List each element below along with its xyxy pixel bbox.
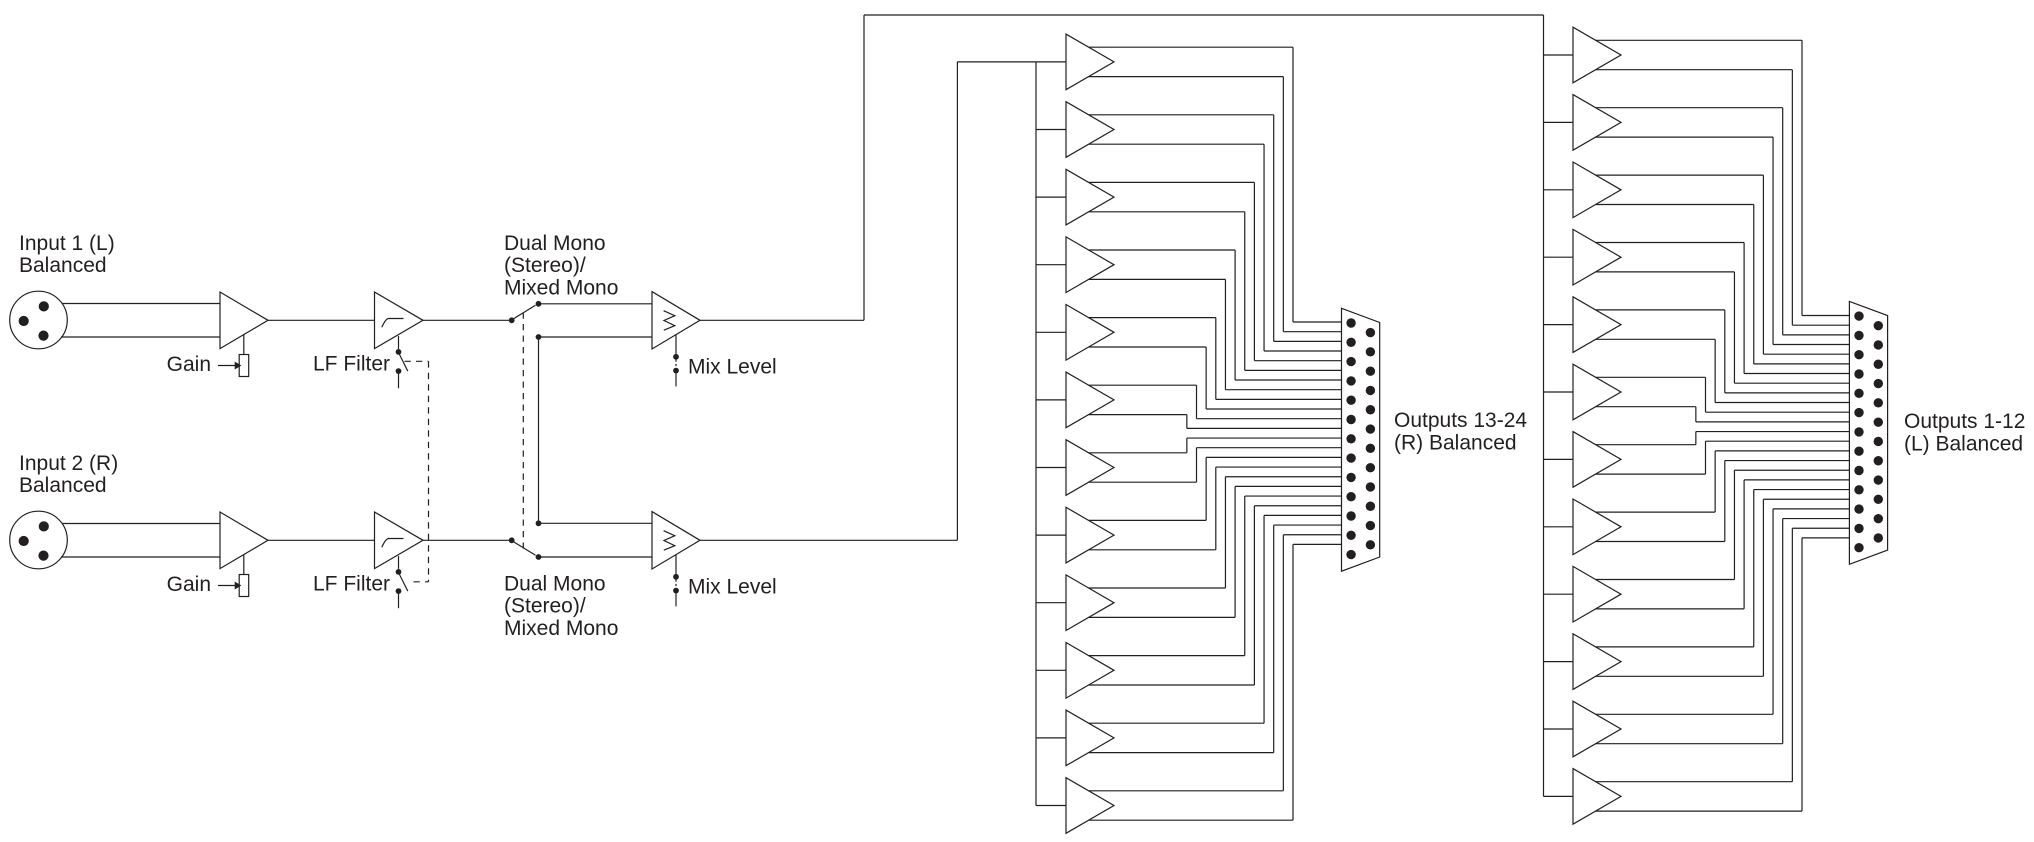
wire A10l to connector (1089, 506, 1343, 685)
wire bus tap A7 (1036, 467, 1066, 469)
op-amp A9 output driver (1066, 575, 1114, 631)
wire U2b to S2b (423, 539, 512, 541)
op-amp B4 output driver (1573, 229, 1621, 285)
dashed gang link S1b-S2b (522, 313, 524, 549)
wire B10u to connector (1596, 490, 1851, 647)
wire bus tap B12 (1544, 795, 1574, 797)
wire U1a to U1b (268, 319, 375, 321)
wire R bank distribution bus (1035, 62, 1037, 806)
svg-text:Dual Mono: Dual Mono (504, 232, 606, 255)
wire A1l to connector (1089, 77, 1343, 332)
XLR connector J2 Input 2 (10, 511, 68, 569)
wire A6u to connector (1089, 385, 1343, 419)
svg-text:(R) Balanced: (R) Balanced (1394, 432, 1517, 455)
wire bus tap A10 (1036, 669, 1066, 671)
svg-text:LF Filter: LF Filter (313, 573, 390, 596)
wire L bank distribution bus (1543, 55, 1545, 796)
switch S1b Dual Mono / Mixed Mono channel 1 (509, 301, 542, 340)
op-amp B10 output driver (1573, 634, 1621, 690)
wire B7u to connector (1596, 432, 1851, 445)
svg-text:Input 1 (L): Input 1 (L) (19, 232, 115, 255)
wire A2l to connector (1089, 144, 1343, 351)
wire A3l to connector (1089, 212, 1343, 371)
wire B12u to connector (1596, 528, 1851, 781)
op-amp U2a gain stage (220, 512, 268, 569)
op-amp U1a gain stage (220, 292, 268, 349)
wire S2b stereo throw to U2c (541, 556, 652, 558)
op-amp B3 output driver (1573, 162, 1621, 218)
op-amp B5 output driver (1573, 297, 1621, 353)
wire B1l to connector (1596, 70, 1851, 325)
svg-text:Dual Mono: Dual Mono (504, 573, 606, 596)
op-amp U2b LF Filter (375, 512, 424, 569)
wire S1b mono throw to U1c (541, 336, 652, 338)
wire B6u to connector (1596, 377, 1851, 412)
wire B3l to connector (1596, 205, 1851, 364)
svg-text:Mixed Mono: Mixed Mono (504, 277, 618, 300)
svg-text:(L) Balanced: (L) Balanced (1904, 433, 2023, 456)
op-amp A6 output driver (1066, 372, 1114, 428)
op-amp A1 output driver (1066, 34, 1114, 90)
svg-text:(Stereo)/: (Stereo)/ (504, 595, 586, 618)
wire A12l to connector (1089, 544, 1343, 820)
op-amp A3 output driver (1066, 169, 1114, 225)
op-amp U2c mix level stage (652, 512, 700, 569)
wire B12l to connector (1596, 538, 1851, 811)
op-amp A4 output driver (1066, 237, 1114, 293)
op-amp B9 output driver (1573, 566, 1621, 622)
op-amp A11 output driver (1066, 710, 1114, 766)
wire bus tap A8 (1036, 534, 1066, 536)
wire B4l to connector (1596, 272, 1851, 383)
wire B9u to connector (1596, 470, 1851, 579)
wire bus tap A12 (1036, 805, 1066, 807)
wire B2u to connector (1596, 108, 1851, 335)
wire bus tap A1 (1036, 61, 1066, 63)
svg-text:Balanced: Balanced (19, 254, 107, 277)
op-amp B1 output driver (1573, 27, 1621, 83)
wire bus tap A11 (1036, 737, 1066, 739)
wire J1 pin2 to U1a (62, 303, 220, 305)
wire A5u to connector (1089, 318, 1343, 400)
wire B4u to connector (1596, 243, 1851, 374)
svg-text:Balanced: Balanced (19, 474, 107, 497)
op-amp U1b LF Filter (375, 292, 424, 349)
wire U2a to U2b (268, 539, 375, 541)
wire bus tap B11 (1544, 728, 1574, 730)
wire A8l to connector (1089, 467, 1343, 550)
svg-text:(Stereo)/: (Stereo)/ (504, 254, 586, 277)
wire bus tap A2 (1036, 129, 1066, 131)
wire bus tap B4 (1544, 256, 1574, 258)
wire A11l to connector (1089, 525, 1343, 753)
wire A12u to connector (1089, 535, 1343, 791)
op-amp A12 output driver (1066, 778, 1114, 834)
potentiometer R1 Gain (218, 335, 249, 377)
potentiometer R4 Mix Level (673, 555, 679, 607)
wire bus tap A6 (1036, 399, 1066, 401)
op-amp A2 output driver (1066, 102, 1114, 158)
wire bus tap A4 (1036, 264, 1066, 266)
wire bus tap B7 (1544, 458, 1574, 460)
wire bus tap A9 (1036, 602, 1066, 604)
wire J2 pin3 to U2a (61, 556, 220, 558)
svg-text:Gain: Gain (167, 573, 211, 596)
op-amp B2 output driver (1573, 95, 1621, 151)
op-amp B6 output driver (1573, 364, 1621, 420)
wire bus tap B3 (1544, 189, 1574, 191)
wire B8l to connector (1596, 461, 1851, 542)
wire B8u to connector (1596, 451, 1851, 512)
dashed gang link S1a-S2a (405, 361, 429, 582)
XLR connector J1 Input 1 (10, 291, 68, 349)
wire U1c output to L bank bus (700, 15, 1544, 320)
wire J2 pin2 to U2a (62, 523, 220, 525)
svg-text:Mix Level: Mix Level (688, 576, 777, 599)
connector P1 DB25 Outputs 1-12 (1849, 301, 1887, 564)
wire A7l to connector (1089, 448, 1343, 482)
svg-text:Outputs 13-24: Outputs 13-24 (1394, 409, 1527, 432)
wire B3u to connector (1596, 175, 1851, 354)
wire A4l to connector (1089, 279, 1343, 389)
wire A11u to connector (1089, 515, 1343, 723)
wire A8u to connector (1089, 457, 1343, 520)
wire B5u to connector (1596, 310, 1851, 393)
wire A9u to connector (1089, 477, 1343, 588)
op-amp B11 output driver (1573, 701, 1621, 757)
op-amp A5 output driver (1066, 305, 1114, 361)
wire B5l to connector (1596, 339, 1851, 402)
switch S1a LF Filter bypass (396, 336, 408, 388)
wire U1b to S1b (423, 319, 512, 321)
potentiometer R3 Mix Level (673, 335, 679, 387)
potentiometer R2 Gain (218, 555, 249, 597)
svg-text:Gain: Gain (167, 353, 211, 376)
wire A10u to connector (1089, 496, 1343, 656)
wire bus tap A3 (1036, 196, 1066, 198)
op-amp B8 output driver (1573, 499, 1621, 555)
svg-text:Mixed Mono: Mixed Mono (504, 617, 618, 640)
wire U2c output to R bank bus (700, 62, 1036, 540)
svg-text:Mix Level: Mix Level (688, 356, 777, 379)
wire A9l to connector (1089, 486, 1343, 617)
wire bus tap B6 (1544, 391, 1574, 393)
wire S1b stereo throw to U1c (541, 303, 652, 305)
wire B1u to connector (1596, 40, 1851, 315)
wire B11l to connector (1596, 519, 1851, 744)
svg-text:Input 2 (R): Input 2 (R) (19, 452, 118, 475)
wire S2b mono throw to U2c (541, 522, 652, 524)
wire bus tap B10 (1544, 661, 1574, 663)
op-amp A10 output driver (1066, 643, 1114, 699)
switch S2b Dual Mono / Mixed Mono channel 2 (509, 520, 542, 560)
wire B9l to connector (1596, 480, 1851, 609)
wire A5l to connector (1089, 347, 1343, 409)
wire bus tap B2 (1544, 121, 1574, 123)
svg-text:Outputs 1-12: Outputs 1-12 (1904, 410, 2025, 433)
wire bus tap B5 (1544, 324, 1574, 326)
wire bus tap B1 (1544, 54, 1574, 56)
op-amp B12 output driver (1573, 769, 1621, 825)
wire A4u to connector (1089, 250, 1343, 380)
wire B11u to connector (1596, 509, 1851, 714)
wire A1u to connector (1089, 47, 1343, 322)
wire B2l to connector (1596, 137, 1851, 344)
wire bus tap B8 (1544, 526, 1574, 528)
wire A6l to connector (1089, 415, 1343, 429)
op-amp A7 output driver (1066, 440, 1114, 496)
op-amp A8 output driver (1066, 507, 1114, 563)
wire B7l to connector (1596, 441, 1851, 474)
svg-text:LF Filter: LF Filter (313, 353, 390, 376)
wire B10l to connector (1596, 499, 1851, 676)
op-amp B7 output driver (1573, 432, 1621, 488)
connector P2 DB25 Outputs 13-24 (1342, 308, 1380, 571)
wire J1 pin3 to U1a (61, 336, 220, 338)
wire B6l to connector (1596, 407, 1851, 422)
switch S2a LF Filter bypass (396, 556, 408, 608)
wire mono bus node A vertical (538, 340, 540, 521)
wire A2u to connector (1089, 115, 1343, 342)
wire bus tap A5 (1036, 331, 1066, 333)
wire bus tap B9 (1544, 593, 1574, 595)
op-amp U1c mix level stage (652, 292, 700, 349)
wire A7u to connector (1089, 438, 1343, 453)
wire A3u to connector (1089, 182, 1343, 360)
